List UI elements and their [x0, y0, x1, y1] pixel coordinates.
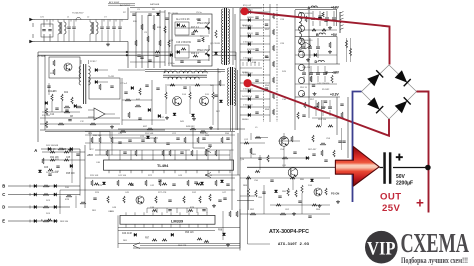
svg-text:C7 1n2: C7 1n2: [120, 83, 128, 85]
svg-text:R21 47K: R21 47K: [48, 91, 57, 93]
svg-text:R31 56K: R31 56K: [145, 133, 154, 135]
svg-text:A: A: [34, 148, 37, 153]
svg-text:R34 10K: R34 10K: [50, 157, 59, 159]
svg-text:R77 47K: R77 47K: [158, 192, 167, 194]
svg-text:C26 1000/10: C26 1000/10: [300, 40, 313, 42]
svg-text:R87 4K7: R87 4K7: [308, 149, 317, 151]
svg-text:D4 FR154: D4 FR154: [242, 96, 253, 98]
svg-text:PHE1 C5027: PHE1 C5027: [197, 23, 211, 25]
svg-text:R70 10K: R70 10K: [90, 175, 99, 177]
svg-text:+: +: [416, 196, 424, 211]
svg-text:R49 8K2: R49 8K2: [186, 126, 195, 128]
svg-text:Q1 C3039: Q1 C3039: [168, 13, 179, 15]
svg-text:OUT: OUT: [380, 192, 401, 203]
svg-text:E: E: [41, 218, 43, 222]
svg-text:T6.3A 250V: T6.3A 250V: [72, 12, 84, 15]
svg-text:C16 1.5K/1KW: C16 1.5K/1KW: [176, 42, 192, 44]
svg-text:C24 1000/16: C24 1000/16: [300, 13, 313, 15]
svg-text:Подборка лучших схем!!!: Подборка лучших схем!!!: [401, 255, 468, 265]
svg-text:+3.3V: +3.3V: [330, 93, 340, 97]
svg-text:R19 2.2: R19 2.2: [191, 53, 200, 55]
svg-text:50V: 50V: [396, 174, 406, 180]
svg-text:R32 1K: R32 1K: [48, 149, 56, 151]
svg-text:R34 4K7: R34 4K7: [200, 133, 209, 135]
svg-text:Q2 C3039: Q2 C3039: [210, 43, 221, 45]
svg-text:SB560: SB560: [242, 119, 249, 121]
svg-text:D 31DQ10: D 31DQ10: [243, 58, 253, 60]
svg-text:R35 300: R35 300: [66, 173, 75, 175]
svg-text:R66 22K: R66 22K: [178, 245, 187, 247]
svg-text:C41 104: C41 104: [118, 175, 127, 177]
svg-text:R55 15: R55 15: [300, 87, 308, 89]
svg-text:SB340: SB340: [247, 17, 254, 19]
svg-text:C5 1n: C5 1n: [196, 12, 203, 14]
svg-text:VIP: VIP: [367, 239, 396, 259]
svg-text:F12C20: F12C20: [247, 49, 256, 51]
svg-text:R74 1K: R74 1K: [205, 175, 213, 177]
svg-text:D: D: [315, 60, 318, 64]
svg-text:R59 150: R59 150: [318, 119, 327, 121]
svg-text:TL494: TL494: [157, 163, 169, 168]
svg-text:2200µF: 2200µF: [396, 180, 413, 186]
svg-text:D 31DQ10: D 31DQ10: [243, 105, 253, 107]
svg-text:A: A: [308, 6, 311, 10]
svg-text:E: E: [2, 219, 5, 224]
svg-text:СХЕМА: СХЕМА: [401, 228, 470, 258]
svg-text:R30 10K: R30 10K: [93, 135, 102, 137]
svg-text:TL431: TL431: [108, 76, 115, 78]
svg-text:B: B: [2, 184, 5, 189]
svg-text:KA7500B: KA7500B: [150, 3, 160, 6]
svg-text:PC817: PC817: [90, 61, 97, 63]
svg-text:+5V: +5V: [331, 33, 338, 37]
svg-text:31DQ: 31DQ: [247, 33, 253, 35]
svg-text:D 31DQ10: D 31DQ10: [243, 42, 253, 44]
svg-text:D20 1N4148: D20 1N4148: [46, 145, 59, 147]
svg-text:PHE2 C5027: PHE2 C5027: [197, 50, 211, 52]
svg-text:PS-ON: PS-ON: [331, 192, 339, 196]
svg-text:C: C: [2, 192, 5, 197]
svg-text:ATX 300W: ATX 300W: [109, 1, 120, 4]
svg-text:LM339: LM339: [171, 218, 184, 223]
svg-text:D21 1N4148: D21 1N4148: [46, 172, 59, 174]
svg-text:R83 330: R83 330: [60, 221, 69, 223]
svg-text:R96 12K: R96 12K: [185, 232, 194, 234]
svg-text:D 31DQ10: D 31DQ10: [243, 26, 253, 28]
svg-text:R90 10K: R90 10K: [282, 191, 291, 193]
svg-text:+12V: +12V: [331, 6, 340, 10]
svg-text:-12V: -12V: [332, 71, 340, 75]
svg-text:ATX-310T 2.03: ATX-310T 2.03: [278, 243, 310, 247]
svg-text:ALL C/D 2.2K: ALL C/D 2.2K: [176, 18, 190, 21]
svg-text:B: B: [316, 33, 319, 37]
svg-text:BYQ 4.7: BYQ 4.7: [243, 5, 252, 7]
svg-text:ATX-300P4-PFC: ATX-300P4-PFC: [269, 229, 309, 235]
svg-text:R5 2W2: R5 2W2: [322, 89, 330, 91]
svg-text:D: D: [2, 205, 5, 210]
svg-text:C11 1n: C11 1n: [168, 63, 176, 65]
svg-text:D40 4148: D40 4148: [122, 233, 133, 235]
svg-text:25V: 25V: [382, 203, 400, 214]
svg-text:+B/U: +B/U: [87, 154, 93, 157]
svg-text:D 31DQ10: D 31DQ10: [243, 89, 253, 91]
svg-text:D 31DQ10: D 31DQ10: [243, 73, 253, 75]
svg-text:C28 470: C28 470: [302, 67, 311, 69]
svg-text:R1 330K: R1 330K: [37, 56, 46, 58]
svg-text:AC INPUT: AC INPUT: [120, 4, 131, 7]
